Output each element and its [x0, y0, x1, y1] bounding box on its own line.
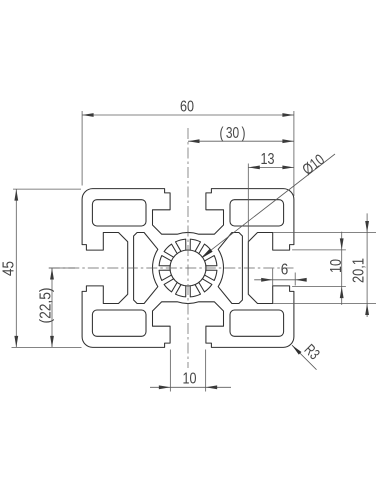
profile outer outline with T-slot openings: [82, 189, 294, 348]
chamber bottom-right: [230, 310, 284, 336]
svg-text:20,1: 20,1: [351, 258, 368, 283]
side cavity east: [218, 233, 242, 304]
core serration teeth: [159, 239, 217, 297]
svg-text:13: 13: [261, 151, 275, 168]
dimension 10 right: [292, 232, 346, 305]
dimension 6: [254, 262, 307, 286]
side cavity west: [134, 233, 158, 304]
svg-text:10: 10: [183, 370, 197, 387]
svg-text:60: 60: [180, 98, 194, 115]
dimension 10 bottom: [150, 350, 231, 392]
svg-text:10: 10: [328, 259, 345, 273]
chamber top-left: [92, 200, 146, 226]
svg-text:( 30 ): ( 30 ): [220, 125, 246, 142]
dimension (30): [188, 125, 294, 143]
svg-text:(22,5): (22,5): [37, 288, 54, 324]
dimension (22,5): [37, 268, 75, 347]
horizontal centerline: [49, 267, 294, 269]
dimension 20,1 right: [273, 213, 376, 317]
dimension 60 top: [82, 98, 294, 196]
core bore circle Ø10: [170, 250, 206, 286]
svg-text:6: 6: [281, 262, 289, 279]
leader R3 corner radius: [292, 341, 323, 369]
dimension 45 left: [1, 189, 82, 347]
leader Ø10 center bore: [202, 151, 335, 257]
vertical centerline: [187, 128, 189, 368]
chamber bottom-left: [92, 310, 146, 336]
chamber top-right: [230, 200, 284, 226]
dimension 13: [248, 151, 294, 242]
svg-text:45: 45: [1, 261, 18, 276]
